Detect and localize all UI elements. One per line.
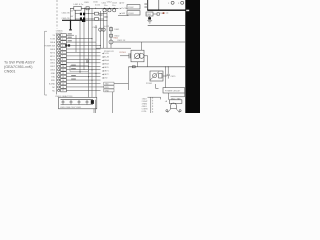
- wire R602 out: [99, 18, 104, 20]
- connector pin 14 RXD: [51, 79, 101, 82]
- thick GND bus: [62, 19, 83, 21]
- sheet reference bubble (2): [181, 1, 184, 4]
- svg-text:◀P-ON: ◀P-ON: [102, 52, 109, 55]
- svg-text:▶5V: ▶5V: [120, 2, 125, 5]
- coil arrow: [134, 53, 141, 59]
- connector pin 17 NC: [52, 89, 100, 92]
- capacitor C610: [103, 9, 106, 12]
- svg-text:10u: 10u: [104, 5, 107, 7]
- svg-text:POWER CIRCUIT: POWER CIRCUIT: [165, 90, 181, 92]
- relay bottom lead: [137, 62, 139, 67]
- junction dots: [88, 13, 93, 19]
- gnd bus: [96, 47, 131, 49]
- svg-text:8: 8: [62, 59, 63, 61]
- small value smudges under rail: [99, 15, 108, 18]
- POWER CIRCUIT box: [163, 88, 185, 93]
- svg-text:(GEA7C951-xxK): (GEA7C951-xxK): [4, 65, 33, 69]
- relay RY601: [131, 50, 144, 62]
- svg-text:(1): (1): [166, 13, 169, 15]
- connector pin 13 TXD: [51, 75, 100, 78]
- connector pin 12 GND: [51, 72, 101, 75]
- connector CN601 left edge: [56, 34, 58, 95]
- capacitor C617 on drop: [102, 28, 105, 31]
- AC section enclosure top edge: [147, 9, 186, 11]
- AC line wire lower: [128, 66, 185, 68]
- fuse F601 box: [146, 12, 153, 16]
- boundary lines bottom: [150, 97, 152, 113]
- boxed net label TXD: [104, 82, 114, 85]
- coupler circle: [153, 74, 157, 78]
- svg-text:KEY1: KEY1: [50, 56, 55, 58]
- svg-text:CN601 GEA7C951: CN601 GEA7C951: [55, 95, 73, 98]
- connector pin 10 LED2: [50, 65, 100, 68]
- svg-text:P-ON: P-ON: [50, 39, 55, 41]
- right black margin bar: [186, 0, 200, 113]
- coupler diagonal: [150, 71, 159, 80]
- wire name smudges rows 1-3: [68, 33, 72, 41]
- svg-text:7: 7: [62, 56, 63, 58]
- AC neutral wire top: [148, 25, 186, 27]
- wire crossing top to AC section: [147, 0, 149, 10]
- connector pin 7 KEY1: [50, 54, 100, 57]
- svg-text:11: 11: [62, 70, 64, 72]
- photocoupler PC601 box: [150, 71, 163, 81]
- relay contact top lead: [141, 42, 143, 50]
- svg-text:RY601: RY601: [120, 52, 127, 54]
- svg-text:3: 3: [62, 42, 63, 44]
- cap bank bus: [61, 99, 94, 101]
- svg-text:S-GND: S-GND: [49, 83, 56, 85]
- svg-text:RXD: RXD: [105, 87, 110, 89]
- motor top lead: [173, 102, 175, 105]
- connector pin 4 POWER SW: [44, 44, 101, 47]
- wire to L601: [70, 7, 74, 9]
- wire labels near AC feed: [144, 3, 147, 4]
- diode D601: [110, 28, 113, 31]
- boxed net label RXD: [104, 86, 114, 89]
- wire from coupler: [163, 75, 167, 77]
- svg-text:0.022: 0.022: [95, 5, 101, 7]
- svg-text:GND: GND: [51, 73, 56, 75]
- bead FB601: [86, 7, 89, 10]
- svg-text:9: 9: [62, 63, 63, 65]
- connector pin 1 5V: [53, 34, 74, 37]
- connector pin 3 SW-A: [50, 41, 96, 44]
- svg-text:LED2: LED2: [50, 66, 55, 68]
- svg-text:GND: GND: [105, 90, 110, 92]
- serial wire: [114, 83, 128, 85]
- svg-text:◀SW-B: ◀SW-B: [102, 63, 109, 66]
- live marker: [163, 12, 165, 14]
- top component value labels: [84, 1, 118, 6]
- ground: [147, 21, 152, 23]
- svg-text:12: 12: [62, 73, 64, 75]
- capacitor left rail: [74, 10, 76, 20]
- capacitor C612: [113, 9, 116, 12]
- svg-text:IC602: IC602: [128, 7, 134, 9]
- svg-text:CN601: CN601: [4, 69, 15, 73]
- bottom exit wires: [93, 109, 95, 113]
- wire contact to coil: [120, 55, 129, 57]
- junction dots: [84, 8, 114, 9]
- svg-text:C602 470: C602 470: [62, 13, 70, 15]
- fan connector box: [169, 100, 182, 104]
- note: To SW PWB ASSY text block: [4, 60, 35, 73]
- bus continuation: [85, 19, 107, 21]
- AC return vertical: [147, 56, 149, 67]
- connector pin 9 LED1: [50, 61, 100, 64]
- svg-text:15: 15: [62, 83, 64, 85]
- resistor R601: [95, 12, 99, 15]
- svg-text:C605 C606 C607 C608: C605 C606 C607 C608: [60, 107, 82, 109]
- svg-text:POWER SW: POWER SW: [44, 46, 55, 48]
- resistor R610: [110, 34, 113, 37]
- wire stub: [118, 15, 129, 17]
- svg-text:C620: C620: [85, 59, 90, 61]
- svg-text:10: 10: [62, 66, 64, 68]
- wire 5V rail: [81, 7, 118, 9]
- fan leads: [168, 93, 170, 100]
- svg-text:PC601: PC601: [146, 83, 153, 85]
- capacitor right rail: [84, 8, 86, 19]
- sheet reference bubble (1): [171, 1, 174, 4]
- board boundary dashed line: [56, 0, 58, 29]
- pair group box: [70, 66, 89, 72]
- svg-text:▶SW: ▶SW: [120, 12, 126, 15]
- regulator block IC603: [127, 11, 140, 15]
- vertical to power box: [165, 67, 167, 88]
- transistor Q601: [109, 40, 113, 44]
- relay coil: [134, 53, 140, 59]
- capacitor C603: [75, 18, 80, 20]
- relay out wire: [144, 55, 148, 57]
- svg-text:16: 16: [62, 87, 64, 89]
- connector pin 15 S-GND: [49, 82, 101, 85]
- GND drop to sheet edge: [111, 92, 113, 113]
- svg-text:KEY2: KEY2: [50, 59, 55, 61]
- inline connector on AC lower wire: [132, 66, 135, 68]
- svg-text:L601 4.7u: L601 4.7u: [74, 4, 85, 6]
- svg-text:SW-A: SW-A: [50, 41, 56, 44]
- svg-text:13: 13: [62, 76, 64, 78]
- capacitor bank box: [59, 97, 97, 108]
- svg-text:4: 4: [62, 45, 63, 47]
- power out corner wire: [171, 93, 185, 97]
- motor legs: [168, 109, 171, 113]
- svg-text:TXD: TXD: [105, 83, 110, 85]
- wire R601 out: [99, 13, 108, 15]
- AC live wire from Q601: [113, 41, 186, 43]
- wire fuse out: [153, 13, 157, 15]
- power box corner wire: [156, 84, 159, 88]
- svg-text:To SW PWB ASSY: To SW PWB ASSY: [4, 60, 35, 64]
- wire C603 to R602: [85, 18, 94, 20]
- svg-text:◀SW-A: ◀SW-A: [102, 59, 109, 62]
- vertical bus wires: [79, 20, 81, 72]
- cap drops: [63, 100, 87, 105]
- motor body arc: [171, 103, 177, 108]
- svg-text:◀LED: ◀LED: [102, 77, 108, 80]
- terminal list bottom: [142, 98, 149, 113]
- svg-text:RXD: RXD: [51, 80, 56, 82]
- leg pads: [166, 110, 168, 112]
- capacitor C602: [75, 13, 80, 15]
- svg-text:5: 5: [62, 49, 63, 51]
- svg-text:TXD: TXD: [51, 77, 55, 79]
- net label column mid: [102, 52, 110, 79]
- white notch in black bar: [186, 10, 189, 12]
- junction blob: [82, 19, 85, 22]
- svg-text:LED1: LED1: [50, 63, 55, 65]
- relay contact circle: [139, 54, 144, 59]
- svg-text:10u: 10u: [112, 5, 115, 7]
- cap bank lower bus: [61, 104, 94, 106]
- thermistor TH601: [157, 13, 159, 15]
- capacitor C611: [108, 9, 111, 12]
- bracket to SW PWB: [45, 31, 47, 95]
- svg-text:KEY0: KEY0: [50, 52, 55, 54]
- diode D604 lead: [149, 16, 151, 17]
- transistor chain Q601: [110, 27, 112, 49]
- svg-text:SW-B: SW-B: [50, 49, 56, 51]
- regulator block IC602: [127, 5, 140, 9]
- connector pin 5 SW-B: [50, 48, 100, 51]
- diode D604: [148, 17, 151, 19]
- svg-text:2: 2: [62, 39, 63, 41]
- electrolytic C608 blob: [91, 100, 94, 104]
- junction dots lower rows: [88, 66, 97, 81]
- inductor L601: [74, 6, 81, 10]
- resistor R602: [95, 18, 99, 21]
- svg-text:◀KEY1: ◀KEY1: [102, 70, 110, 73]
- svg-text:6 YEL: 6 YEL: [142, 111, 147, 113]
- svg-text:IC603: IC603: [128, 13, 134, 15]
- svg-text:17: 17: [62, 90, 64, 92]
- svg-text:1: 1: [62, 35, 63, 37]
- svg-text:LED3: LED3: [50, 70, 55, 72]
- left drop of AC lower wire: [127, 67, 129, 90]
- connector pin 11 LED3: [50, 68, 100, 71]
- coupler box part: [159, 73, 162, 78]
- connector pin 8 KEY2: [50, 58, 100, 61]
- svg-text:▶P-ON: ▶P-ON: [120, 7, 128, 10]
- svg-text:◀KEY2: ◀KEY2: [102, 73, 110, 76]
- capacitor C615: [167, 67, 169, 74]
- connector pin 16 NC: [52, 86, 104, 89]
- capacitor C616 on drop: [99, 28, 102, 31]
- svg-text:6: 6: [62, 52, 63, 54]
- svg-text:14: 14: [62, 80, 64, 82]
- svg-text:◀AC-IN: ◀AC-IN: [102, 56, 110, 59]
- wire C602 to R601: [85, 13, 94, 15]
- net label arrows top right of rail: [120, 2, 128, 15]
- connector pin 6 KEY0: [50, 51, 100, 54]
- svg-text:◀KEY0: ◀KEY0: [102, 66, 110, 69]
- wire value smudges: [71, 65, 76, 80]
- relay contact: [128, 53, 130, 58]
- schematic right border: [185, 0, 187, 113]
- boxed net label GND: [104, 89, 114, 92]
- connector pin 2 P-ON: [50, 37, 92, 40]
- +B feed wire: [148, 97, 161, 99]
